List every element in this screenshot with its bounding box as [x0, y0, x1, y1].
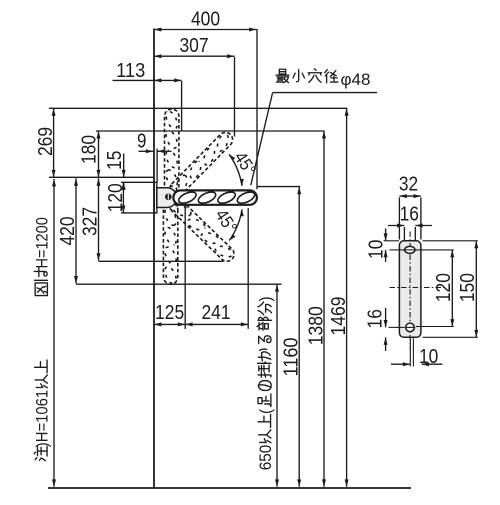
svg-text:400: 400 [191, 9, 220, 31]
svg-text:650: 650 [257, 445, 275, 471]
svg-text:1469: 1469 [328, 297, 350, 336]
svg-text:120: 120 [433, 273, 455, 302]
svg-text:32: 32 [399, 174, 418, 196]
svg-text:10: 10 [366, 240, 388, 259]
svg-text:): ) [257, 296, 275, 301]
svg-text:)H=1061: )H=1061 [33, 390, 51, 447]
svg-text:420: 420 [57, 216, 79, 245]
svg-text:241: 241 [201, 302, 230, 324]
svg-text:16: 16 [400, 203, 419, 225]
svg-text:307: 307 [179, 35, 208, 57]
svg-text:9: 9 [137, 130, 146, 152]
svg-text:269: 269 [35, 127, 57, 156]
svg-text:16: 16 [365, 309, 387, 328]
svg-text:113: 113 [116, 60, 145, 82]
svg-text:H=1200: H=1200 [33, 217, 51, 268]
svg-text:10: 10 [419, 346, 438, 368]
svg-text:120: 120 [105, 183, 127, 212]
svg-text:1380: 1380 [305, 306, 327, 345]
svg-text:1160: 1160 [280, 338, 302, 377]
svg-text:φ48: φ48 [341, 70, 371, 89]
svg-text:180: 180 [79, 135, 101, 164]
svg-text:(: ( [257, 408, 275, 414]
svg-text:327: 327 [80, 207, 102, 236]
svg-text:15: 15 [104, 151, 126, 170]
svg-text:150: 150 [457, 273, 479, 302]
svg-text:125: 125 [155, 302, 184, 324]
svg-text:45°: 45° [211, 205, 241, 236]
